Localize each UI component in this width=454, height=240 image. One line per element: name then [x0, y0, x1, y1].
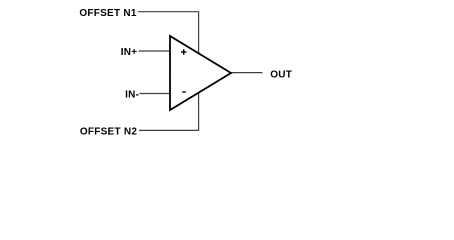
op-amp U1 triangle body — [170, 36, 231, 110]
svg-text:OFFSET N2: OFFSET N2 — [80, 127, 137, 138]
wire OFFSET N2 to op-amp bottom edge — [139, 93, 199, 131]
svg-text:IN+: IN+ — [121, 47, 138, 58]
wire OFFSET N1 to op-amp top edge — [138, 12, 199, 54]
svg-text:OUT: OUT — [270, 70, 292, 81]
wire IN+ — [139, 50, 171, 52]
svg-text:OFFSET N1: OFFSET N1 — [79, 8, 136, 19]
wire OUT — [231, 72, 263, 74]
wire IN- — [140, 93, 171, 95]
op-amp - input marker — [182, 91, 186, 92]
svg-text:IN-: IN- — [125, 90, 139, 101]
op-amp + input marker — [181, 49, 187, 55]
